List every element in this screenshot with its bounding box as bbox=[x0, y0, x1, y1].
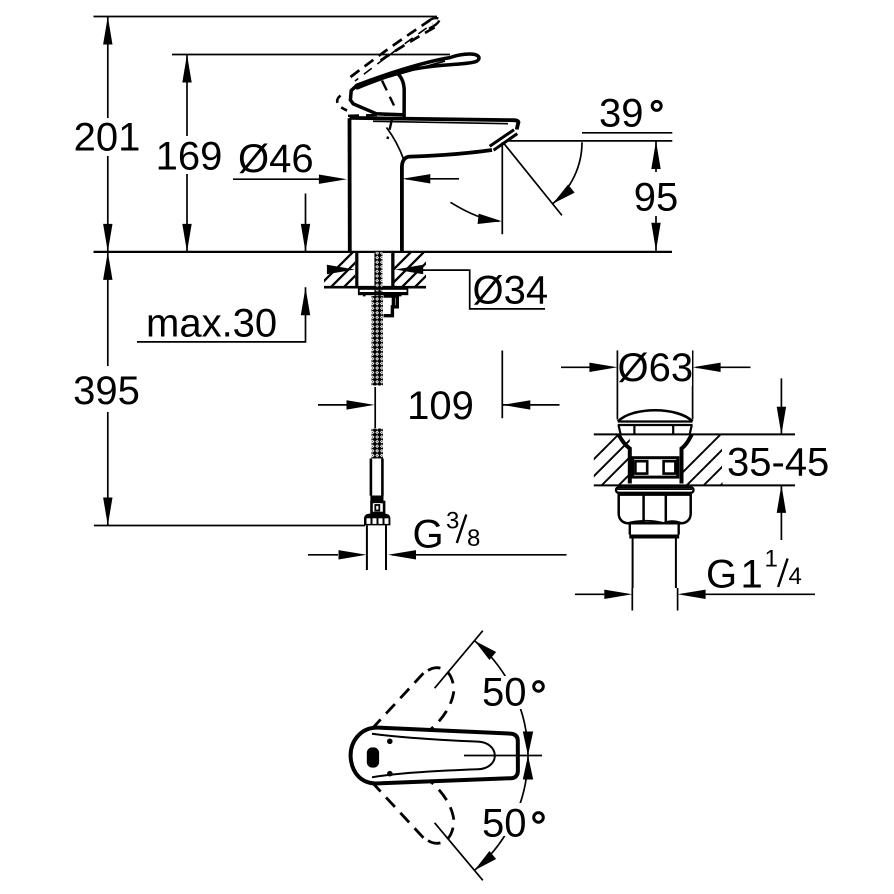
drain flange bbox=[616, 487, 694, 493]
50 degree reference line upper bbox=[435, 631, 483, 689]
handle top view outline bbox=[351, 728, 518, 784]
extension line G1 1/4 left bbox=[631, 588, 633, 611]
max.30 dimension lines and leader bbox=[137, 194, 306, 342]
extension line 109 at outlet bbox=[501, 351, 503, 419]
svg-text:G: G bbox=[413, 513, 444, 557]
label Ø63 bbox=[620, 349, 692, 386]
horizontal reference line at spout outlet bbox=[506, 140, 672, 142]
arrowhead 50 upper outer bbox=[471, 637, 496, 660]
faucet spout underside and body right edge bbox=[402, 150, 492, 252]
deck hatch left bbox=[310, 250, 394, 295]
arrowhead 95 up bbox=[651, 141, 660, 169]
svg-text:max.30: max.30 bbox=[146, 302, 277, 346]
mounting hole left edge bbox=[355, 252, 358, 287]
arrowhead 169 up bbox=[182, 55, 191, 83]
dimension line 201 bbox=[107, 17, 109, 252]
drain neck left bbox=[619, 434, 630, 483]
arrowhead 95 down bbox=[651, 223, 660, 251]
lever front face bbox=[350, 86, 402, 115]
lever blade outline bbox=[356, 54, 479, 88]
arrowhead G3/8 left bbox=[339, 550, 367, 559]
svg-text:3: 3 bbox=[446, 508, 459, 535]
handle dot upper bbox=[387, 739, 393, 745]
deck hatch right bbox=[368, 250, 452, 295]
drain hex nut outline bbox=[619, 495, 691, 524]
arrowhead 109 left bbox=[347, 400, 375, 409]
handle top view inner contour bbox=[372, 734, 495, 778]
arrowhead max.30 down bbox=[301, 224, 310, 252]
arrowhead G1 1/4 left bbox=[604, 590, 632, 599]
svg-text:Ø46: Ø46 bbox=[238, 137, 314, 181]
spout body blend curve bbox=[387, 128, 405, 161]
faucet body left edge bbox=[348, 118, 352, 252]
extension line G1 1/4 right bbox=[677, 588, 679, 611]
arrowhead G3/8 right bbox=[388, 550, 416, 559]
cartridge hidden dashed line bbox=[388, 119, 393, 139]
extension line, 169 top level bbox=[172, 54, 450, 56]
hose knurled nut bbox=[364, 514, 390, 526]
dimension line G3/8 right bbox=[392, 554, 567, 556]
braided supply hose upper bbox=[372, 296, 384, 386]
drain pipe walls bbox=[633, 539, 676, 589]
dimension line Ø46 left bbox=[233, 178, 322, 180]
aerator strip outer bbox=[490, 130, 514, 147]
lever blade inner line bbox=[361, 61, 445, 85]
arrowhead 169 down bbox=[182, 224, 191, 252]
mounting hole right edge bbox=[391, 252, 394, 287]
svg-text:1: 1 bbox=[741, 553, 763, 597]
dimension line 35-45 bottom bbox=[780, 485, 782, 540]
dimension line G1 1/4 right bbox=[706, 593, 815, 595]
lever swing arc arrow bbox=[451, 202, 500, 221]
deck bottom line bbox=[324, 286, 426, 289]
hose smooth tube bbox=[371, 459, 383, 496]
label 95 bbox=[630, 172, 682, 216]
svg-text:35-45: 35-45 bbox=[727, 441, 829, 485]
washer plate bbox=[358, 289, 408, 295]
drain overflow window right bbox=[664, 461, 676, 473]
hose end fitting body bbox=[372, 502, 385, 513]
arrowhead 50 lower outer bbox=[471, 851, 496, 874]
lever neck bbox=[398, 74, 405, 117]
label 39 degrees underline bbox=[582, 132, 672, 134]
raised lever front dashed arc bbox=[337, 96, 347, 111]
handle logo blob bbox=[367, 747, 379, 767]
rotated handle dashed lower bbox=[372, 782, 454, 844]
arrowhead 109 right bbox=[502, 400, 530, 409]
mounting nut inner line bbox=[392, 296, 395, 307]
drain hex nut bottom scallops bbox=[628, 521, 682, 523]
countertop reference line (deck top) bbox=[94, 251, 673, 253]
svg-text:1: 1 bbox=[765, 546, 778, 573]
raised lever tip curl top bbox=[426, 18, 439, 23]
arrowhead G1 1/4 right bbox=[678, 590, 706, 599]
50 degree arc lower bbox=[474, 756, 528, 871]
svg-text:G: G bbox=[706, 553, 737, 597]
svg-text:395: 395 bbox=[73, 369, 140, 413]
svg-text:109: 109 bbox=[407, 384, 474, 428]
dimension line Ø63 left bbox=[561, 366, 590, 368]
degree symbol of 39 bbox=[652, 101, 661, 110]
svg-text:169: 169 bbox=[156, 134, 223, 178]
svg-text:39: 39 bbox=[599, 92, 644, 136]
arrowhead Ø63 right bbox=[693, 363, 721, 372]
arrowhead 395 up bbox=[103, 252, 112, 280]
svg-text:4: 4 bbox=[789, 563, 802, 590]
basin hatch right bbox=[655, 430, 776, 500]
extension line Ø63 left bbox=[616, 350, 618, 419]
svg-text:50: 50 bbox=[482, 671, 527, 715]
arrowhead 39 degree arc bbox=[549, 185, 574, 208]
raised lever dashed upper edge bbox=[381, 26, 437, 60]
arrowhead 201 down bbox=[103, 224, 112, 252]
washer side steps bbox=[364, 295, 400, 297]
drain cartridge band bbox=[633, 458, 678, 477]
drain hex nut facet lines bbox=[644, 495, 666, 523]
drain cap rim ticks bbox=[633, 425, 635, 434]
arrowhead 50 upper at centerline bbox=[523, 732, 533, 756]
faucet spout top edge bbox=[350, 118, 519, 130]
dimension line 395 bbox=[107, 252, 109, 526]
drain tail walls bbox=[630, 523, 679, 534]
hose end reference line (395 bottom) bbox=[94, 525, 365, 527]
extension line Ø63 right bbox=[692, 350, 694, 419]
svg-text:50: 50 bbox=[482, 802, 527, 846]
hose end fitting collar bbox=[370, 496, 383, 503]
arrowhead Ø46 right bbox=[402, 174, 430, 183]
hose end fitting window bbox=[374, 503, 381, 511]
dimension line Ø46 right bbox=[406, 178, 459, 180]
handle centerline bbox=[464, 755, 542, 757]
drain cap rim sides bbox=[619, 425, 692, 434]
39 degree angle arc bbox=[553, 142, 582, 203]
arrowhead 395 down bbox=[103, 498, 112, 526]
drain cap base lines bbox=[618, 420, 693, 422]
rotated handle dashed upper bbox=[372, 668, 454, 730]
dimension line 35-45 top bbox=[780, 378, 782, 434]
water stream direction line 39 degrees bbox=[503, 142, 562, 215]
lever bottom hidden dashed line bbox=[348, 115, 386, 116]
arrowhead max.30 up bbox=[301, 287, 310, 315]
threaded stud bbox=[374, 252, 382, 296]
vertical drop line from spout outlet bbox=[501, 142, 503, 234]
label 50 degrees upper bbox=[480, 676, 550, 709]
supply pipe G3/8 walls bbox=[367, 525, 386, 570]
dimension line G1 1/4 left bbox=[575, 593, 604, 595]
spout top inner line bbox=[373, 121, 508, 123]
raised lever dashed lower edge bbox=[351, 20, 431, 77]
dimension line 109 left bbox=[318, 404, 348, 406]
svg-text:95: 95 bbox=[634, 176, 679, 220]
dimension line G3/8 left bbox=[308, 554, 338, 556]
svg-text:201: 201 bbox=[74, 116, 141, 160]
label 395 bbox=[78, 366, 136, 412]
aerator strip inner bbox=[494, 134, 518, 151]
arrowhead Ø34 left bbox=[327, 265, 355, 274]
svg-text:Ø34: Ø34 bbox=[473, 268, 549, 312]
50 degree reference line lower bbox=[435, 823, 483, 881]
drain neck right bbox=[682, 434, 692, 483]
drain dome cap arc bbox=[618, 410, 693, 421]
svg-text:8: 8 bbox=[467, 525, 480, 552]
label 169 bbox=[160, 136, 214, 174]
arrowhead Ø46 left bbox=[319, 175, 347, 184]
basin top surface line bbox=[594, 433, 795, 435]
dimension line 95 bbox=[655, 141, 657, 251]
mounting nut profile bbox=[384, 296, 398, 316]
arrowhead lever swing arc bbox=[478, 214, 503, 227]
basin bottom surface line bbox=[594, 484, 795, 486]
arrowhead 201 up bbox=[103, 17, 112, 45]
label 50 degrees lower bbox=[480, 803, 550, 836]
raised lever inner dashed line bbox=[355, 24, 433, 81]
arrowhead Ø63 left bbox=[589, 363, 617, 372]
basin hatch left bbox=[553, 430, 674, 500]
label 35-45 bbox=[722, 440, 834, 482]
arrowhead 35-45 down bbox=[777, 407, 786, 435]
arrowhead 35-45 up bbox=[777, 485, 786, 513]
dimension line 109 right bbox=[502, 404, 559, 406]
raised lever tip curl bottom bbox=[429, 21, 439, 29]
arrowhead 50 lower at centerline bbox=[523, 756, 533, 780]
svg-text:Ø63: Ø63 bbox=[617, 346, 693, 390]
lever hidden diagonal dashed bbox=[382, 81, 394, 106]
leader line Ø34 bbox=[423, 270, 545, 309]
handle dot lower bbox=[387, 771, 393, 777]
dimension line Ø63 right bbox=[696, 366, 751, 368]
drain tail collar band bbox=[629, 535, 679, 539]
arrowhead Ø34 right bbox=[395, 265, 423, 274]
50 degree arc upper bbox=[474, 641, 528, 756]
drain overflow window left bbox=[635, 461, 647, 473]
dimension line 169 bbox=[186, 55, 188, 252]
label 201 bbox=[80, 118, 134, 156]
braided supply hose lower bbox=[372, 429, 384, 459]
extension line 109 at hose bbox=[374, 387, 376, 428]
extension line, 201 top level bbox=[94, 16, 438, 18]
